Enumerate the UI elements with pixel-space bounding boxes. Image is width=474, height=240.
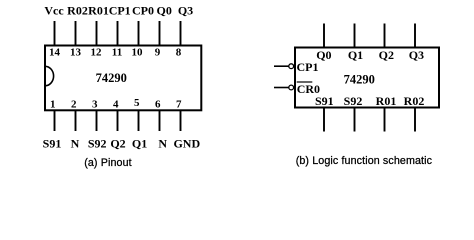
- svg-text:S91: S91: [43, 137, 62, 151]
- wire pin 6 stub: [159, 110, 161, 131]
- svg-text:11: 11: [112, 47, 122, 59]
- svg-text:9: 9: [155, 47, 161, 59]
- svg-text:R02: R02: [67, 3, 88, 17]
- IC U1 74290 DIP-14 body: [45, 46, 201, 111]
- wire pin 5 stub: [138, 110, 140, 131]
- wire pin 10 stub: [138, 21, 140, 45]
- svg-text:4: 4: [113, 98, 119, 110]
- svg-text:13: 13: [70, 47, 82, 59]
- svg-text:1: 1: [50, 98, 56, 110]
- wire R01 input stub: [384, 108, 386, 132]
- svg-text:2: 2: [71, 98, 77, 110]
- wire pin 8 stub: [180, 21, 182, 45]
- svg-text:R02: R02: [404, 94, 425, 108]
- svg-text:74290: 74290: [96, 71, 127, 85]
- wire pin 11 stub: [117, 21, 119, 45]
- wire pin 3 stub: [96, 110, 98, 131]
- svg-text:(b) Logic function schematic: (b) Logic function schematic: [296, 155, 433, 167]
- svg-text:Q3: Q3: [178, 3, 193, 17]
- wire CR0 input line: [274, 87, 289, 89]
- pin-1 notch: [45, 66, 54, 86]
- svg-text:N: N: [158, 137, 167, 151]
- svg-text:CP1: CP1: [109, 3, 131, 17]
- overbar of CR0: [297, 81, 313, 83]
- svg-text:Vcc: Vcc: [44, 3, 64, 17]
- wire R02 input stub: [414, 108, 416, 132]
- wire pin 14 stub: [54, 21, 56, 45]
- svg-text:N: N: [71, 137, 80, 151]
- wire Q1 output stub: [354, 24, 356, 48]
- wire pin 13 stub: [75, 21, 77, 45]
- wire pin 4 stub: [117, 110, 119, 131]
- wire CP1 input line: [274, 65, 289, 67]
- wire pin 9 stub: [159, 21, 161, 45]
- svg-text:S91: S91: [315, 94, 334, 108]
- svg-text:8: 8: [176, 47, 182, 59]
- wire pin 7 stub: [180, 110, 182, 131]
- svg-text:(a) Pinout: (a) Pinout: [84, 157, 132, 169]
- wire Q3 output stub: [414, 24, 416, 48]
- svg-text:CR0: CR0: [297, 82, 320, 96]
- svg-text:CP0: CP0: [132, 3, 154, 17]
- svg-text:Q0: Q0: [316, 48, 331, 62]
- wire Q2 output stub: [384, 24, 386, 48]
- svg-text:74290: 74290: [344, 72, 375, 86]
- wire pin 12 stub: [96, 21, 98, 45]
- wire Q0 output stub: [323, 24, 325, 48]
- wire S91 input stub: [323, 108, 325, 132]
- svg-text:S92: S92: [88, 137, 107, 151]
- wire pin 2 stub: [75, 110, 77, 131]
- svg-text:R01: R01: [88, 3, 109, 17]
- wire pin 1 stub: [54, 110, 56, 131]
- svg-text:R01: R01: [376, 94, 397, 108]
- svg-text:14: 14: [49, 47, 61, 59]
- svg-text:GND: GND: [173, 137, 200, 151]
- svg-text:5: 5: [134, 97, 140, 109]
- svg-text:CP1: CP1: [297, 60, 319, 74]
- IC U2 74290 logic symbol body: [295, 48, 439, 108]
- inversion bubble CP1: [289, 64, 294, 69]
- wire S92 input stub: [354, 108, 356, 132]
- svg-text:Q2: Q2: [110, 137, 125, 151]
- svg-text:3: 3: [92, 98, 98, 110]
- svg-text:6: 6: [155, 98, 161, 110]
- svg-text:Q1: Q1: [348, 48, 363, 62]
- svg-text:10: 10: [132, 47, 144, 59]
- svg-text:S92: S92: [344, 94, 363, 108]
- svg-text:Q3: Q3: [409, 48, 424, 62]
- svg-text:Q1: Q1: [132, 137, 147, 151]
- svg-text:Q0: Q0: [157, 3, 172, 17]
- svg-text:7: 7: [176, 98, 182, 110]
- inversion bubble CR0: [289, 85, 294, 90]
- svg-text:Q2: Q2: [379, 48, 394, 62]
- svg-text:12: 12: [91, 47, 103, 59]
